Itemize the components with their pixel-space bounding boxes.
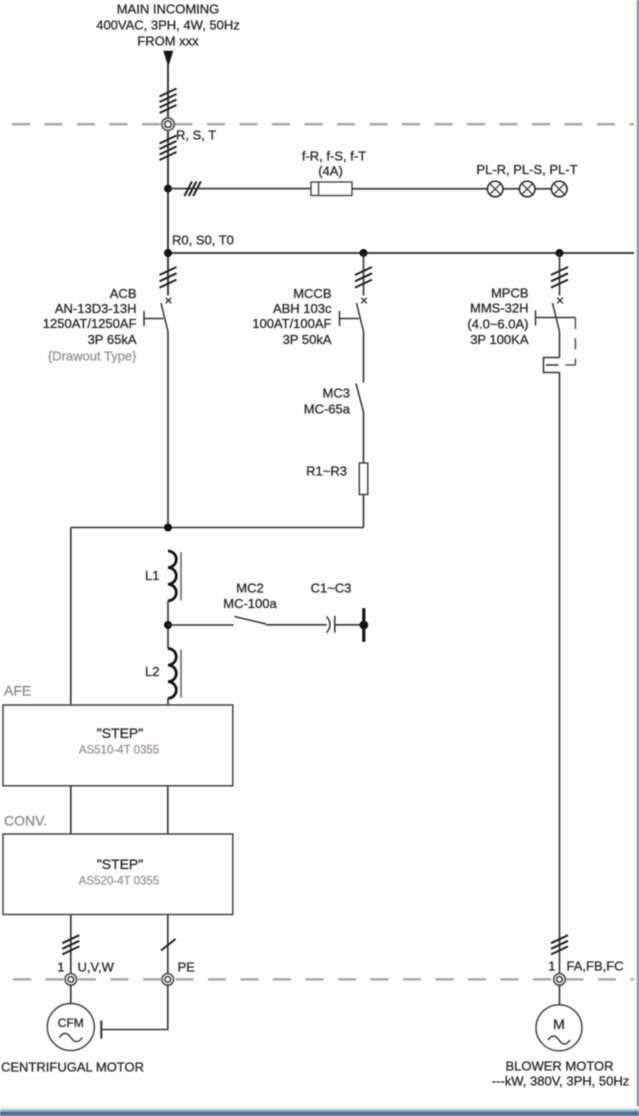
breaker ACB bbox=[144, 298, 171, 332]
wire: AFE to CONV left bbox=[70, 786, 72, 834]
svg-text:U,V,W: U,V,W bbox=[78, 960, 115, 975]
wire: CONV to U,V,W terminal bbox=[70, 915, 72, 980]
pilot lamp PL-S bbox=[519, 181, 535, 197]
svg-text:100AT/100AF: 100AT/100AF bbox=[252, 316, 331, 331]
BLOWER MOTOR labels bbox=[492, 1059, 630, 1089]
svg-text:AFE: AFE bbox=[4, 683, 31, 699]
incoming feeder arrow bbox=[163, 51, 173, 67]
svg-text:MC-65a: MC-65a bbox=[304, 402, 351, 417]
svg-text:MC3: MC3 bbox=[323, 386, 350, 401]
svg-text:3P 100KA: 3P 100KA bbox=[470, 332, 529, 347]
3-wire slash group MCCB branch bbox=[355, 267, 372, 288]
node: capacitor branch tap bbox=[164, 621, 172, 629]
node: capacitor bank connection bbox=[359, 621, 368, 630]
svg-text:L1: L1 bbox=[145, 568, 159, 583]
wire: MCCB to MC3 bbox=[363, 332, 365, 383]
3-wire slash group U,V,W bbox=[62, 935, 79, 954]
top dashed boundary line bbox=[12, 123, 634, 125]
svg-text:AN-13D3-13H: AN-13D3-13H bbox=[55, 301, 137, 316]
svg-text:CONV.: CONV. bbox=[4, 813, 47, 829]
contactor MC2 bbox=[235, 617, 267, 625]
wire: L2 to AFE box bbox=[167, 698, 169, 705]
svg-text:R0, S0, T0: R0, S0, T0 bbox=[172, 233, 234, 248]
MC2 labels bbox=[223, 581, 277, 612]
wire: CONV to PE terminal bbox=[167, 915, 169, 980]
wire: ACB to junction bbox=[167, 332, 169, 528]
contactor MC3 bbox=[356, 384, 364, 413]
wire: MC2 to capacitor bbox=[266, 624, 327, 626]
4-wire slash group below terminal bbox=[160, 136, 177, 161]
svg-text:3P 50kA: 3P 50kA bbox=[283, 332, 332, 347]
svg-text:400VAC, 3PH, 4W, 50Hz: 400VAC, 3PH, 4W, 50Hz bbox=[96, 18, 240, 33]
wire: AFE to CONV right bbox=[167, 786, 169, 834]
thermal overload relay bbox=[544, 358, 560, 373]
terminal (double circle) blower feeder bbox=[554, 974, 566, 986]
svg-text:MPCB: MPCB bbox=[491, 286, 529, 301]
svg-text:R1~R3: R1~R3 bbox=[306, 464, 347, 479]
terminal labels 1 / U,V,W / PE bbox=[57, 960, 195, 975]
svg-text:1: 1 bbox=[57, 960, 64, 975]
wire: main bus R0,S0,T0 bbox=[168, 252, 634, 254]
svg-text:(4A): (4A) bbox=[318, 164, 343, 179]
wire: fuse to pilot lamps bbox=[352, 188, 568, 190]
wire: bus to MCCB bbox=[363, 253, 365, 296]
wire: MPCB branch down to terminal bbox=[559, 373, 561, 980]
3-wire slash group FA,FB,FC bbox=[551, 935, 568, 954]
terminal labels 1 / FA,FB,FC bbox=[548, 959, 623, 974]
svg-text:AS510-4T 0355: AS510-4T 0355 bbox=[79, 745, 159, 757]
ACB labels bbox=[43, 286, 137, 364]
svg-text:"STEP": "STEP" bbox=[97, 856, 144, 872]
svg-text:1: 1 bbox=[548, 959, 555, 974]
MPCB labels bbox=[467, 286, 528, 348]
bottom dashed boundary line bbox=[13, 978, 634, 980]
svg-text:FROM xxx: FROM xxx bbox=[137, 34, 199, 49]
wire: fuse branch horizontal bbox=[168, 188, 311, 190]
node: fuse branch junction bbox=[164, 185, 172, 193]
MC3 labels bbox=[304, 386, 351, 417]
wire: L1 to node bbox=[167, 601, 169, 649]
svg-text:MC2: MC2 bbox=[236, 581, 263, 596]
node: junction at main axis bbox=[164, 524, 172, 532]
svg-text:FA,FB,FC: FA,FB,FC bbox=[567, 959, 624, 974]
withdrawable terminal (double circle) at boundary bbox=[162, 118, 174, 130]
svg-text:MAIN INCOMING: MAIN INCOMING bbox=[117, 2, 220, 17]
svg-text:PE: PE bbox=[178, 960, 196, 975]
svg-text:{Drawout Type}: {Drawout Type} bbox=[48, 348, 137, 363]
resistor R1~R3 bbox=[359, 463, 368, 495]
wire: terminal to blower motor bbox=[559, 985, 561, 1005]
AFE unit box "STEP" AS510 bbox=[3, 705, 233, 786]
incoming source label text bbox=[96, 2, 240, 49]
PE termination bar bbox=[100, 1021, 102, 1039]
wire: R1~R3 down to junction line bbox=[363, 495, 365, 528]
3-wire slash group on fuse branch bbox=[184, 181, 200, 196]
svg-text:R, S, T: R, S, T bbox=[176, 128, 216, 143]
svg-text:ACB: ACB bbox=[110, 286, 137, 301]
breaker MCCB bbox=[340, 298, 367, 332]
svg-text:PL-R, PL-S, PL-T: PL-R, PL-S, PL-T bbox=[476, 162, 577, 177]
wire: MC3 to R1~R3 bbox=[363, 412, 365, 463]
svg-text:MC-100a: MC-100a bbox=[223, 596, 277, 611]
svg-text:L2: L2 bbox=[145, 664, 159, 679]
capacitor C1~C3 bbox=[327, 616, 335, 633]
dashed linkage MPCB to overload bbox=[566, 318, 576, 366]
svg-text:(4.0~6.0A): (4.0~6.0A) bbox=[467, 317, 528, 332]
svg-text:CFM: CFM bbox=[58, 1016, 84, 1030]
wire: capacitor to bar bbox=[335, 624, 362, 626]
svg-text:f-R, f-S, f-T: f-R, f-S, f-T bbox=[302, 149, 366, 164]
node: bus tap MPCB bbox=[556, 249, 564, 257]
terminal (double circle) U,V,W bbox=[65, 974, 77, 986]
right border bbox=[636, 0, 639, 1116]
svg-text:---kW, 380V, 3PH, 50Hz: ---kW, 380V, 3PH, 50Hz bbox=[492, 1074, 630, 1089]
wire: PE drop and run to motor frame bbox=[103, 985, 168, 1030]
node: bus tap MCCB bbox=[360, 249, 368, 257]
svg-text:M: M bbox=[553, 1016, 565, 1032]
PE slash bbox=[161, 939, 176, 951]
svg-text:BLOWER MOTOR: BLOWER MOTOR bbox=[505, 1059, 613, 1074]
svg-text:3P 65kA: 3P 65kA bbox=[88, 332, 137, 347]
4-wire slash group above terminal bbox=[160, 89, 177, 114]
wire: bus to MPCB bbox=[559, 253, 561, 296]
bottom blue bar bbox=[0, 1106, 639, 1116]
wire: main incoming vertical bbox=[167, 64, 169, 296]
svg-text:AS520-4T 0355: AS520-4T 0355 bbox=[79, 876, 159, 888]
svg-text:CENTRIFUGAL MOTOR: CENTRIFUGAL MOTOR bbox=[1, 1060, 144, 1075]
breaker MPCB bbox=[536, 298, 576, 358]
3-wire slash group MPCB branch bbox=[551, 267, 568, 288]
reactor L1 bbox=[168, 551, 181, 601]
fuse F (rectangle) bbox=[311, 182, 352, 196]
MCCB labels bbox=[252, 286, 332, 347]
CONV unit box "STEP" AS520 bbox=[3, 834, 233, 915]
motor CFM (centrifugal) bbox=[47, 1004, 94, 1051]
motor M (blower) bbox=[536, 1005, 582, 1051]
reactor L2 bbox=[168, 649, 181, 699]
svg-text:MMS-32H: MMS-32H bbox=[470, 301, 529, 316]
svg-text:C1~C3: C1~C3 bbox=[311, 581, 352, 596]
wire: left branch down to AFE bbox=[70, 528, 72, 706]
pilot lamp PL-T bbox=[551, 181, 567, 197]
node: bus tap ACB bbox=[164, 249, 172, 257]
wire: terminal to CFM motor bbox=[70, 985, 72, 1005]
svg-text:ABH 103c: ABH 103c bbox=[273, 301, 332, 316]
wire: node to MC2 bbox=[168, 624, 234, 626]
busbar stub (thick) bbox=[362, 608, 365, 642]
pilot lamp PL-R bbox=[487, 181, 503, 197]
terminal (double circle) PE bbox=[162, 974, 174, 986]
svg-text:"STEP": "STEP" bbox=[97, 725, 144, 741]
svg-text:1250AT/1250AF: 1250AT/1250AF bbox=[43, 316, 137, 331]
wire: horizontal junction line bbox=[71, 527, 364, 529]
svg-text:MCCB: MCCB bbox=[293, 286, 331, 301]
3-wire slash group ACB branch bbox=[160, 267, 177, 288]
